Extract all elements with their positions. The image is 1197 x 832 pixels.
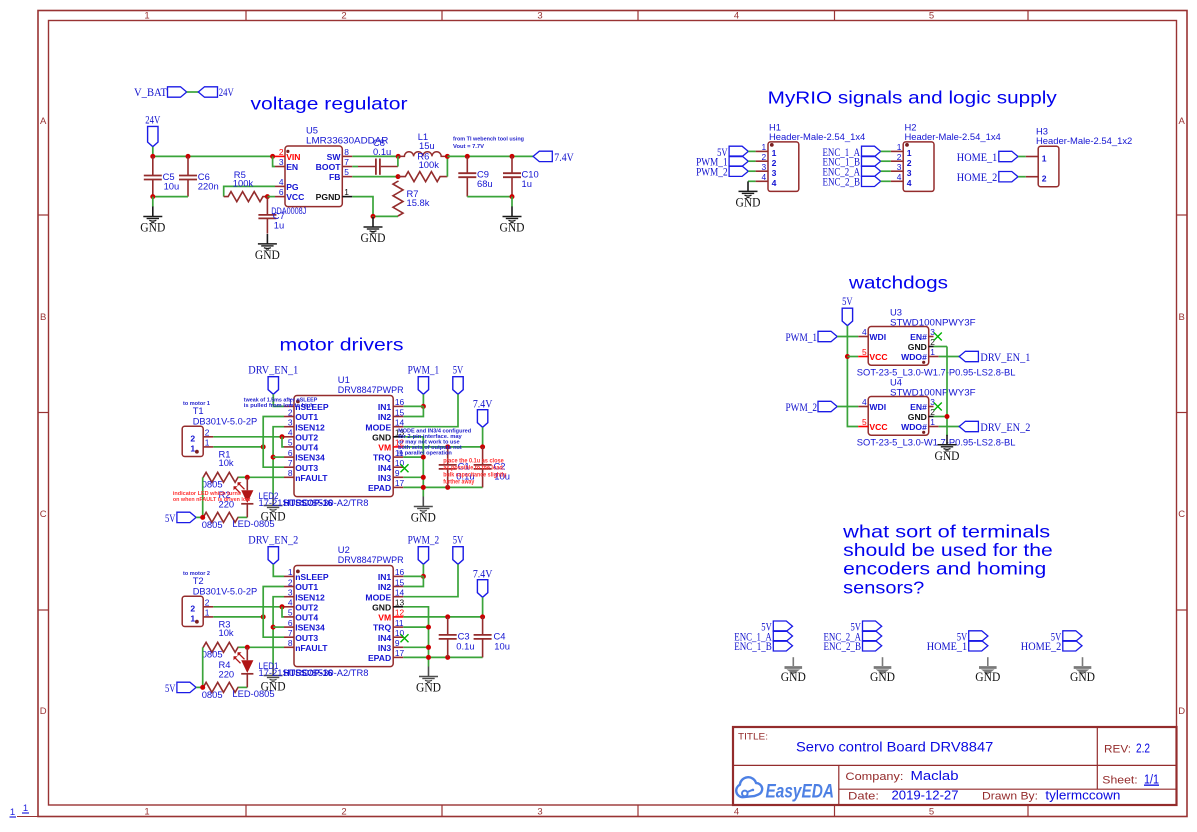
svg-text:watchdogs: watchdogs (848, 272, 948, 292)
net flag ENC_2_B (824, 641, 882, 654)
ground near flags (1070, 657, 1095, 684)
svg-text:3: 3 (537, 806, 542, 817)
label C3 (456, 631, 474, 652)
svg-text:further away: further away (443, 480, 475, 486)
label C10 (522, 168, 539, 189)
net port PWM_2 label (408, 534, 440, 546)
no-connect X on U3 EN# (934, 333, 942, 341)
junction VM/C3 (445, 614, 450, 619)
wire T1 pin2 to OUT2/OUT4 (213, 436, 284, 438)
net flag ENC_1_A at H2 pin 1 (823, 146, 881, 159)
svg-text:GND: GND (411, 511, 436, 525)
svg-text:GND: GND (908, 342, 927, 352)
wire PWM_2 to IN1 (422, 564, 424, 576)
terminal block T2 DB301V-5.0-2P (182, 596, 213, 626)
svg-text:1u: 1u (522, 178, 532, 189)
junction IN1 U1 (421, 404, 426, 409)
no-connect X on IN4 U1 (401, 464, 409, 472)
label T2 (193, 575, 258, 596)
svg-text:A: A (40, 116, 47, 127)
junction EPAD/C3 (445, 655, 450, 660)
capacitor C10 (503, 156, 521, 196)
wire nFAULT U1 (247, 476, 284, 478)
wire PWM_2 to WDI (837, 406, 858, 408)
svg-text:1: 1 (205, 438, 210, 448)
svg-text:GND: GND (416, 681, 441, 695)
capacitor C4 (474, 617, 492, 658)
svg-text:0805: 0805 (202, 519, 223, 530)
svg-text:OUT3: OUT3 (295, 633, 318, 643)
watchdog IC U4 STWD100NPWY3F (858, 397, 939, 436)
svg-text:ISEN12: ISEN12 (295, 592, 325, 602)
net port DRV_EN_1 label (248, 364, 298, 376)
svg-text:2: 2 (205, 428, 210, 438)
junction L1 out (445, 154, 450, 159)
title block frame (733, 727, 1177, 805)
svg-text:GND: GND (255, 248, 280, 262)
capacitor C7 (258, 197, 276, 234)
svg-text:LED-0805: LED-0805 (232, 688, 274, 699)
wire R3 to LED (238, 646, 247, 648)
svg-text:0805: 0805 (202, 479, 223, 490)
ground near flags (781, 657, 806, 684)
wire ISEN bus U1 (273, 427, 284, 496)
label C7 (273, 210, 285, 230)
svg-text:5: 5 (862, 417, 867, 427)
wire 5V bus to VCC pins (847, 326, 858, 427)
wire PWM_1 to IN1 (422, 394, 424, 406)
svg-text:D: D (40, 706, 47, 717)
net port PWM_1 label (408, 364, 440, 376)
svg-text:10k: 10k (219, 627, 234, 638)
svg-text:WDO#: WDO# (901, 352, 927, 362)
svg-text:DRV_EN_2: DRV_EN_2 (980, 422, 1030, 434)
label R3 (219, 619, 234, 639)
frame column ticks and numbers (144, 10, 1028, 817)
wire H2 pin 1 (881, 150, 891, 152)
svg-text:VCC: VCC (869, 352, 887, 362)
title block Company (845, 768, 958, 783)
transistor driver IC U1 DRV8847PWPR (284, 396, 405, 497)
net flag 5V (851, 621, 882, 634)
label C6 (198, 171, 219, 192)
svg-text:GND: GND (372, 602, 391, 612)
svg-text:IN2: IN2 (378, 412, 392, 422)
svg-text:8: 8 (288, 468, 293, 478)
svg-text:10u: 10u (494, 640, 510, 651)
svg-text:GND: GND (361, 231, 386, 245)
svg-text:GND: GND (140, 221, 165, 235)
svg-text:should be used for the: should be used for the (843, 540, 1053, 560)
net flag 24V (alias) (198, 87, 217, 97)
net port DRV_EN_2 (268, 547, 278, 565)
ground under H1 (736, 181, 761, 209)
svg-text:5V: 5V (453, 534, 464, 546)
label C4 (494, 631, 510, 652)
svg-text:16: 16 (395, 567, 405, 577)
svg-text:IN1: IN1 (378, 402, 392, 412)
net flag ENC_2_B at H2 pin 4 (823, 176, 881, 189)
svg-text:2: 2 (762, 152, 767, 162)
svg-text:2.2: 2.2 (1136, 740, 1150, 755)
svg-text:WDO#: WDO# (901, 422, 927, 432)
net port 24V label (145, 115, 161, 127)
page tab markers (10, 803, 39, 818)
wire H1 pin 1 (748, 150, 755, 152)
svg-text:100k: 100k (233, 178, 254, 189)
junction VM/C1 (445, 444, 450, 449)
section title: terminals question (842, 522, 1053, 598)
junction nFAULT/LED U1 (245, 475, 250, 480)
svg-text:ENC_2_B: ENC_2_B (823, 177, 861, 189)
svg-text:C: C (40, 509, 47, 520)
net port 7.4V label (motor) (473, 398, 493, 410)
wire R5 to VCC pin (267, 196, 275, 198)
wire H2 pin 3 (881, 170, 891, 172)
resistor R5 (224, 192, 268, 202)
wire R1 to LED (238, 476, 247, 478)
net port 24V (148, 126, 158, 146)
junction C9 top (465, 154, 470, 159)
svg-text:SOT-23-5_L3.0-W1.7-P0.95-LS2.8: SOT-23-5_L3.0-W1.7-P0.95-LS2.8-BL (857, 437, 1016, 448)
section title: motor drivers (280, 335, 404, 355)
svg-text:Drawn By:: Drawn By: (982, 790, 1038, 802)
svg-text:3: 3 (537, 10, 542, 21)
svg-text:3: 3 (930, 397, 935, 407)
net flag PWM_2 at H1 pin 3 (696, 166, 748, 179)
wire EPAD rail U1 (403, 486, 482, 488)
wire OUT1/OUT3 bus U1 (263, 417, 284, 468)
connector H3 Header-Male-2.54_1x2 (1026, 146, 1059, 186)
svg-text:16: 16 (395, 397, 405, 407)
svg-text:ENC_2_B: ENC_2_B (824, 641, 862, 653)
svg-text:OUT4: OUT4 (295, 443, 318, 453)
svg-text:what sort of terminals: what sort of terminals (842, 522, 1051, 542)
wire 7.4V to VM U1 (482, 427, 484, 447)
svg-text:HOME_2: HOME_2 (957, 172, 998, 184)
svg-text:1: 1 (897, 142, 902, 152)
wire GND bus U2 (403, 607, 428, 667)
svg-text:220: 220 (219, 669, 235, 680)
junction C10 bottom (510, 194, 515, 199)
svg-text:4: 4 (762, 172, 767, 182)
resistor R6 (398, 172, 447, 182)
net flag HOME_1 (927, 641, 988, 654)
junction 5V U2 (200, 685, 205, 690)
svg-text:TRQ: TRQ (373, 623, 391, 633)
svg-text:1: 1 (10, 807, 15, 818)
label R2 (219, 489, 235, 510)
svg-text:SW: SW (327, 152, 342, 162)
svg-text:0.1u: 0.1u (456, 640, 474, 651)
svg-text:2: 2 (190, 603, 195, 613)
svg-text:PWM_2: PWM_2 (408, 534, 440, 546)
ground under EPAD U1 (411, 497, 436, 525)
annotation cap placement (443, 458, 507, 485)
net flag DRV_EN_1 (959, 351, 1030, 364)
svg-text:ENC_1_B: ENC_1_B (734, 641, 772, 653)
wire IN1 stub U2 (403, 575, 423, 577)
svg-text:on when nFAULT is driven low: on when nFAULT is driven low (173, 497, 251, 503)
svg-text:sensors?: sensors? (843, 577, 924, 597)
op-amp U5 LMR33630ADDAR buck regulator (275, 146, 352, 207)
wire 7.4V to VM U2 (482, 597, 484, 617)
svg-text:1u: 1u (274, 219, 284, 230)
wire DRV_EN_1 to nSLEEP (273, 394, 284, 406)
svg-text:Servo control Board DRV8847: Servo control Board DRV8847 (796, 740, 993, 755)
svg-text:Header-Male-2.54_1x2: Header-Male-2.54_1x2 (1036, 135, 1132, 146)
net flag V_BAT (168, 87, 187, 97)
svg-text:Header-Male-2.54_1x4: Header-Male-2.54_1x4 (905, 131, 1001, 142)
connector H2 label (905, 121, 1001, 142)
title block title text (796, 740, 993, 755)
wire IN3 stub U1 (403, 476, 423, 478)
svg-text:10u: 10u (164, 180, 180, 191)
svg-text:EasyEDA: EasyEDA (766, 781, 835, 802)
label 0805 of R3 (202, 649, 223, 660)
svg-text:9: 9 (395, 638, 400, 648)
wire TRQ stub U1 (403, 456, 423, 458)
wire IN1 stub U1 (403, 405, 423, 407)
capacitor C2 (474, 447, 492, 488)
svg-text:2: 2 (279, 147, 284, 157)
annotation to motor (183, 401, 211, 407)
ground under R7 (361, 216, 386, 245)
svg-text:2: 2 (907, 158, 912, 168)
net alias V_BAT label (134, 87, 167, 99)
svg-text:ISEN34: ISEN34 (295, 453, 325, 463)
wire T2 pin2 to OUT2/OUT4 (213, 606, 284, 608)
wire U4 GND pin (934, 416, 948, 418)
svg-text:GND: GND (908, 412, 927, 422)
svg-text:0805: 0805 (202, 689, 223, 700)
ground under C5 (140, 197, 165, 235)
label C8 (373, 137, 391, 157)
label U2 (338, 544, 404, 565)
wire R2 to LED (238, 516, 247, 518)
svg-text:1: 1 (288, 567, 293, 577)
svg-text:7.4V: 7.4V (473, 398, 493, 410)
svg-text:MODE: MODE (365, 422, 391, 432)
label C1 (456, 461, 474, 482)
connector H3 label (1036, 125, 1132, 146)
svg-text:nFAULT: nFAULT (295, 643, 328, 653)
wire PG to R5 (224, 186, 275, 196)
title block REV (1104, 740, 1150, 755)
svg-text:5: 5 (344, 167, 349, 177)
LED LED1 (234, 647, 254, 687)
ground under EPAD U2 (416, 667, 441, 695)
svg-text:7: 7 (288, 628, 293, 638)
svg-text:14: 14 (395, 588, 405, 598)
svg-text:4: 4 (897, 172, 902, 182)
wire VM rail U2 (403, 616, 482, 618)
capacitor C1 (439, 447, 457, 488)
resistor R3 (203, 642, 239, 652)
svg-text:2: 2 (930, 407, 935, 417)
junction OUT1/OUT3 bus U1 (261, 444, 266, 449)
net port DRV_EN_1 (268, 377, 278, 395)
wire C5-C6 bottom (153, 196, 188, 198)
resistor R1 (203, 472, 239, 482)
wire T2 pin1 to OUT1/OUT3 (213, 616, 263, 618)
wire PWM_1 to WDI (837, 336, 858, 338)
label C2 (494, 461, 510, 482)
svg-text:GND: GND (736, 195, 761, 209)
svg-text:IN4: IN4 (378, 463, 392, 473)
svg-text:GND: GND (975, 670, 1000, 684)
svg-text:24V: 24V (219, 87, 235, 99)
svg-text:1/1: 1/1 (1144, 772, 1159, 787)
svg-text:PG: PG (286, 182, 299, 192)
svg-text:5: 5 (929, 806, 934, 817)
svg-text:VIN: VIN (286, 152, 300, 162)
svg-text:3: 3 (762, 162, 767, 172)
svg-text:1: 1 (205, 608, 210, 618)
svg-text:IN2: IN2 (378, 582, 392, 592)
inductor L1 (398, 152, 447, 157)
wire DRV_EN_2 to nSLEEP (273, 564, 284, 576)
label U4 footprint (857, 437, 1016, 448)
label LED2 (259, 490, 369, 508)
wire 5V to MODE U1 (403, 394, 458, 426)
svg-text:2: 2 (1042, 174, 1047, 184)
net port 5V (motor) (453, 377, 463, 395)
svg-text:REV:: REV: (1104, 743, 1131, 755)
net port PWM_1 (418, 377, 428, 395)
wire U3 WDO# (939, 356, 960, 358)
wire H2 pin 4 (881, 180, 891, 182)
svg-text:voltage regulator: voltage regulator (251, 94, 408, 114)
wire OUT1/OUT3 bus U2 (263, 587, 284, 638)
no-connect X on U4 EN# (934, 403, 942, 411)
label 0805 of R4 (202, 689, 223, 700)
net flag 5V (motor) (165, 512, 196, 525)
svg-text:HOME_1: HOME_1 (957, 152, 998, 164)
svg-text:GND: GND (781, 670, 806, 684)
svg-text:5V: 5V (165, 513, 176, 525)
svg-text:OUT3: OUT3 (295, 463, 318, 473)
label U2 footprint HTSSOP-16 (284, 667, 333, 678)
svg-text:OUT2: OUT2 (295, 432, 318, 442)
section title: watchdogs (848, 272, 948, 292)
wire R6 up to output (446, 156, 448, 176)
svg-text:14: 14 (395, 418, 405, 428)
wire H3 pin 2 (1018, 176, 1026, 178)
label LED-0805 of LED2 (232, 518, 274, 529)
svg-text:FB: FB (329, 172, 340, 182)
label U3 (890, 307, 976, 328)
svg-text:VM: VM (378, 443, 391, 453)
svg-text:1: 1 (930, 417, 935, 427)
svg-text:11: 11 (395, 618, 404, 628)
svg-text:17-21SURC/S530-A2/TR8: 17-21SURC/S530-A2/TR8 (259, 497, 369, 508)
ground under C10 (500, 197, 525, 235)
junction PGND gnd (371, 214, 376, 219)
svg-text:from TI webench tool using: from TI webench tool using (453, 137, 524, 143)
svg-text:STWD100NPWY3F: STWD100NPWY3F (890, 386, 976, 397)
svg-text:1: 1 (930, 347, 935, 357)
net flag 7.4V (533, 151, 552, 161)
junction C6 top (186, 154, 191, 159)
junction EPAD/bus U2 (426, 655, 431, 660)
title block TITLE label (738, 732, 768, 743)
svg-text:1: 1 (907, 148, 912, 158)
svg-text:HOME_1: HOME_1 (927, 641, 968, 653)
svg-text:15: 15 (395, 407, 405, 417)
net port 7.4V (motor) (477, 580, 487, 598)
svg-text:OUT4: OUT4 (295, 613, 318, 623)
junction IN3 U1 (421, 475, 426, 480)
wire 5V riser U2 (202, 647, 204, 687)
svg-text:MyRIO signals and logic supply: MyRIO signals and logic supply (768, 87, 1057, 107)
title block Sheet (1102, 772, 1159, 787)
wire R4 to LED (238, 686, 247, 688)
svg-text:WDI: WDI (869, 332, 886, 342)
svg-text:HOME_2: HOME_2 (1021, 641, 1062, 653)
svg-text:ISEN12: ISEN12 (295, 422, 325, 432)
wire GND bus U1 (403, 437, 423, 497)
svg-text:100k: 100k (419, 159, 440, 170)
svg-text:nFAULT: nFAULT (295, 473, 328, 483)
junction VM/C4 (480, 614, 485, 619)
svg-text:TITLE:: TITLE: (738, 732, 768, 743)
net port 7.4V label (motor) (473, 568, 493, 580)
svg-text:4: 4 (288, 598, 293, 608)
svg-text:VCC: VCC (286, 192, 304, 202)
wire 5V flag to R4 (196, 686, 203, 688)
svg-text:5: 5 (929, 10, 934, 21)
svg-text:4: 4 (288, 428, 293, 438)
svg-text:1: 1 (23, 803, 28, 814)
wire H1 pin 3 (748, 170, 755, 172)
label R1 (219, 449, 234, 469)
svg-text:1: 1 (144, 806, 149, 817)
wire OUT4 link U1 (282, 437, 284, 447)
label U4 (890, 377, 976, 398)
svg-text:IN1: IN1 (378, 572, 392, 582)
wire SW rail (352, 155, 399, 157)
junction C5 bottom (150, 194, 155, 199)
svg-text:in parallel operation: in parallel operation (398, 450, 452, 456)
svg-text:2: 2 (288, 577, 293, 587)
svg-text:encoders and homing: encoders and homing (843, 559, 1046, 579)
wire U3 GND pin (934, 346, 948, 348)
svg-text:2: 2 (205, 598, 210, 608)
svg-text:OUT1: OUT1 (295, 582, 318, 592)
LED LED2 (234, 477, 254, 517)
label 7.4V (554, 152, 574, 164)
svg-text:17: 17 (395, 478, 405, 488)
svg-text:DB301V-5.0-2P: DB301V-5.0-2P (193, 585, 258, 596)
label U5 footprint DDA0008J (271, 205, 306, 216)
net flag DRV_EN_2 (959, 421, 1030, 434)
wire T1 pin1 to OUT1/OUT3 (213, 446, 263, 448)
junction VIN/EN branch (270, 154, 275, 159)
junction watchdog gnd (945, 414, 950, 419)
resistor R2 (203, 512, 239, 522)
svg-text:EPAD: EPAD (368, 483, 391, 493)
net flag HOME_2 (1021, 641, 1082, 654)
capacitor C8 (358, 159, 398, 175)
label LED-0805 of LED1 (232, 688, 274, 699)
wire IN3 stub U2 (403, 646, 428, 648)
svg-text:7: 7 (288, 458, 293, 468)
svg-text:3: 3 (930, 327, 935, 337)
net flag 5V (761, 621, 792, 634)
capacitor C3 (439, 617, 457, 658)
terminal block T1 DB301V-5.0-2P (182, 426, 213, 456)
